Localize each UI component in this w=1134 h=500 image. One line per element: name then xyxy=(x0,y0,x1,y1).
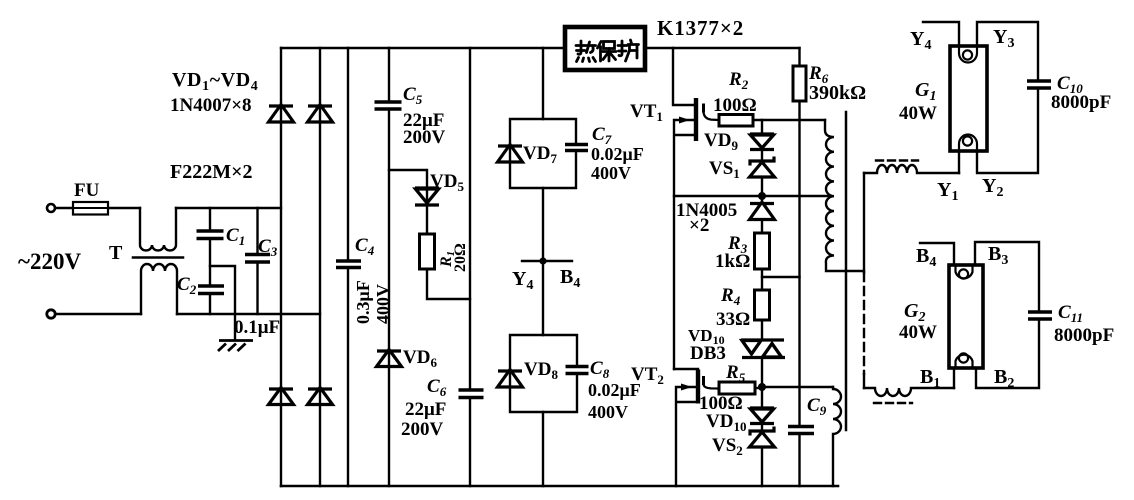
svg-text:F222M×2: F222M×2 xyxy=(170,161,253,183)
svg-text:400V: 400V xyxy=(588,402,628,422)
svg-text:0.3μF: 0.3μF xyxy=(353,280,373,324)
svg-text:~220V: ~220V xyxy=(18,249,81,274)
svg-text:×2: ×2 xyxy=(689,215,709,236)
svg-text:200V: 200V xyxy=(403,127,446,148)
svg-text:0.02μF: 0.02μF xyxy=(591,144,644,164)
svg-text:1kΩ: 1kΩ xyxy=(715,251,750,272)
svg-text:8000pF: 8000pF xyxy=(1051,92,1111,113)
svg-text:400V: 400V xyxy=(591,163,631,183)
svg-text:40W: 40W xyxy=(899,322,937,343)
svg-text:VD1~VD4: VD1~VD4 xyxy=(172,69,258,94)
svg-text:0.1μF: 0.1μF xyxy=(234,317,280,338)
svg-text:T: T xyxy=(109,242,123,264)
svg-text:FU: FU xyxy=(74,180,100,201)
svg-text:400V: 400V xyxy=(373,284,393,324)
svg-text:100Ω: 100Ω xyxy=(713,95,757,116)
svg-text:200V: 200V xyxy=(401,419,444,440)
svg-text:33Ω: 33Ω xyxy=(716,309,750,330)
svg-text:DB3: DB3 xyxy=(690,343,726,364)
svg-text:K1377×2: K1377×2 xyxy=(657,16,744,40)
svg-text:22μF: 22μF xyxy=(405,399,446,420)
svg-text:40W: 40W xyxy=(899,103,937,124)
svg-text:390kΩ: 390kΩ xyxy=(809,82,866,104)
svg-text:20Ω: 20Ω xyxy=(452,243,469,272)
svg-text:8000pF: 8000pF xyxy=(1054,325,1114,346)
svg-text:1N4007×8: 1N4007×8 xyxy=(170,95,252,116)
